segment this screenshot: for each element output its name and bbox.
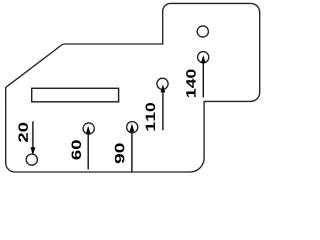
hole 90 xyxy=(127,122,138,133)
label 140 xyxy=(186,69,196,96)
label 90 xyxy=(115,143,125,163)
leader 110 xyxy=(162,91,164,131)
hole 60 xyxy=(83,123,94,134)
hole 20 xyxy=(26,154,37,165)
leader 90 xyxy=(131,130,133,173)
hole 110 xyxy=(157,78,168,89)
arrowhead 110 xyxy=(161,84,166,92)
arrowhead 140 xyxy=(201,55,206,63)
slot rectangle xyxy=(32,88,119,102)
label 110 xyxy=(146,103,156,130)
label 60 xyxy=(71,140,81,159)
hole 140 xyxy=(198,52,209,63)
arrowhead 90 xyxy=(130,124,135,132)
leader 20 xyxy=(32,121,34,149)
arrowhead 60 xyxy=(86,126,91,134)
leader 140 xyxy=(202,61,204,97)
hole tab xyxy=(197,26,208,37)
arrowhead 20 xyxy=(31,147,36,155)
leader 60 xyxy=(87,132,89,169)
plate outline xyxy=(6,3,260,172)
label 20 xyxy=(18,123,28,142)
